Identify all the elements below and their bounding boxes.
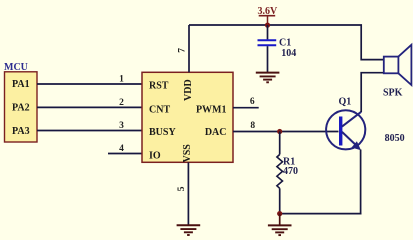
capacitor C1 lead bottom — [267, 46, 269, 72]
Q1 emitter line with arrow — [342, 132, 357, 146]
svg-text:MCU: MCU — [4, 62, 28, 73]
junction dot DAC node — [277, 129, 282, 134]
svg-text:104: 104 — [281, 48, 296, 59]
junction dot at R1 bottom — [277, 211, 282, 216]
ground under R1 — [268, 214, 292, 236]
svg-text:8050: 8050 — [385, 133, 405, 144]
top power rail wire — [189, 25, 384, 60]
svg-text:RST: RST — [149, 81, 169, 92]
resistor R1 zigzag — [277, 155, 283, 189]
svg-text:SPK: SPK — [383, 88, 403, 99]
svg-text:BUSY: BUSY — [149, 127, 176, 138]
wire PA3 to BUSY — [37, 130, 142, 132]
pin 5 wire (VSS) to ground — [187, 162, 189, 225]
ground under C1 — [256, 73, 280, 83]
wire PA2 to CNT — [37, 106, 142, 108]
wire PA1 to RST — [37, 83, 142, 85]
wire IO stub pin 4 — [108, 153, 142, 155]
Q1 base bar — [339, 117, 342, 146]
ground under IC pin 5 — [177, 225, 201, 235]
svg-text:4: 4 — [119, 144, 124, 154]
MCU sheet-part box — [5, 72, 38, 142]
svg-text:5: 5 — [177, 186, 187, 191]
pin 7 wire (VDD) — [188, 25, 190, 72]
junction dot at power rail — [265, 23, 270, 28]
svg-text:PA2: PA2 — [12, 103, 30, 114]
pin 6 stub (PWM1) — [233, 107, 259, 109]
emitter wire down — [360, 150, 362, 214]
svg-text:IO: IO — [149, 150, 161, 161]
transistor Q1 circle — [326, 110, 365, 149]
svg-text:PA3: PA3 — [12, 126, 30, 137]
bottom wire from R1 to emitter — [280, 213, 362, 215]
IC U1 body — [142, 72, 233, 162]
svg-text:2: 2 — [119, 98, 124, 108]
resistor R1 top lead — [279, 132, 281, 155]
svg-text:8: 8 — [250, 121, 255, 131]
capacitor C1 plates — [258, 39, 277, 41]
svg-text:PWM1: PWM1 — [196, 104, 227, 115]
pin 8 wire (DAC) to Q1 base — [233, 131, 339, 133]
capacitor C1 lead top — [267, 25, 269, 39]
svg-text:VDD: VDD — [183, 79, 194, 101]
svg-text:3: 3 — [119, 121, 124, 131]
svg-text:DAC: DAC — [205, 127, 227, 138]
Q1 collector line — [342, 112, 361, 127]
svg-text:Q1: Q1 — [339, 97, 352, 108]
svg-text:VSS: VSS — [182, 144, 193, 163]
svg-text:6: 6 — [250, 97, 255, 107]
svg-text:PA1: PA1 — [12, 79, 30, 90]
svg-text:CNT: CNT — [149, 104, 170, 115]
svg-text:1: 1 — [119, 75, 124, 85]
resistor R1 bottom lead — [279, 188, 281, 213]
svg-text:7: 7 — [178, 48, 188, 53]
speaker SPK body — [384, 57, 399, 74]
collector wire up to speaker — [361, 73, 384, 112]
speaker horn — [398, 45, 411, 85]
svg-text:470: 470 — [283, 166, 298, 177]
svg-text:C1: C1 — [279, 37, 291, 48]
